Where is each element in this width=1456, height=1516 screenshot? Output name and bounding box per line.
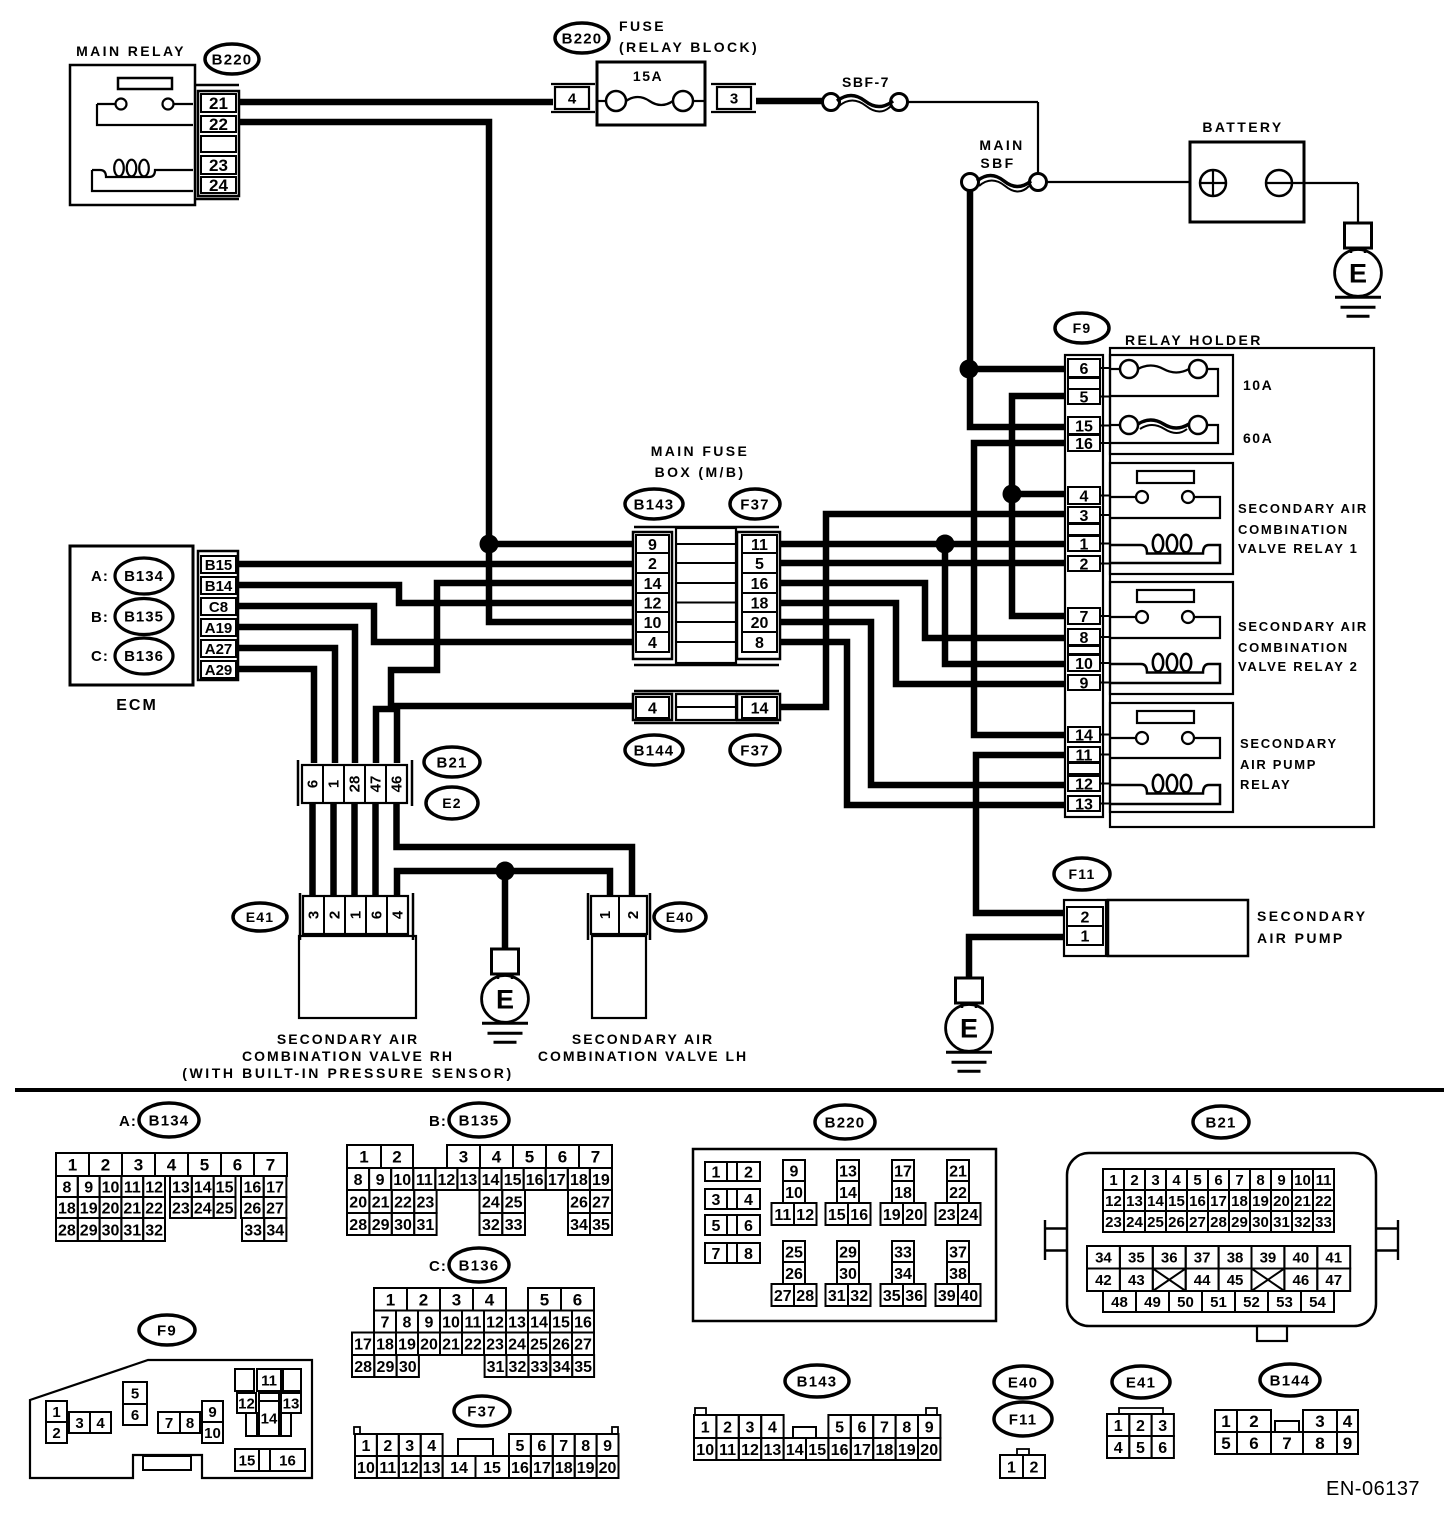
svg-text:26: 26 bbox=[1168, 1214, 1185, 1231]
svg-text:4: 4 bbox=[1343, 1412, 1353, 1431]
svg-text:19: 19 bbox=[592, 1172, 610, 1189]
svg-text:MAIN FUSE: MAIN FUSE bbox=[651, 443, 750, 459]
svg-text:31: 31 bbox=[1273, 1214, 1290, 1231]
svg-text:3: 3 bbox=[459, 1148, 468, 1167]
svg-text:14: 14 bbox=[839, 1185, 857, 1202]
svg-text:15A: 15A bbox=[633, 68, 663, 84]
svg-text:14: 14 bbox=[450, 1460, 468, 1477]
svg-text:B21: B21 bbox=[1205, 1114, 1236, 1131]
svg-text:3: 3 bbox=[730, 90, 738, 107]
svg-text:11: 11 bbox=[379, 1460, 396, 1477]
svg-text:19: 19 bbox=[1252, 1193, 1269, 1210]
svg-text:12: 12 bbox=[1105, 1193, 1122, 1210]
svg-text:16: 16 bbox=[526, 1172, 544, 1189]
svg-text:3: 3 bbox=[75, 1415, 83, 1432]
svg-text:E: E bbox=[496, 984, 514, 1014]
svg-text:9: 9 bbox=[1080, 675, 1089, 692]
svg-text:21: 21 bbox=[372, 1194, 390, 1211]
svg-text:18: 18 bbox=[751, 595, 769, 612]
svg-text:4: 4 bbox=[1114, 1440, 1123, 1457]
svg-text:6: 6 bbox=[305, 780, 322, 788]
svg-text:23: 23 bbox=[486, 1337, 504, 1354]
svg-text:5: 5 bbox=[712, 1218, 721, 1235]
svg-text:28: 28 bbox=[354, 1359, 372, 1376]
svg-text:5: 5 bbox=[755, 556, 764, 573]
svg-text:E40: E40 bbox=[1008, 1374, 1038, 1391]
svg-text:5: 5 bbox=[1221, 1434, 1230, 1453]
svg-text:6: 6 bbox=[1080, 361, 1089, 378]
svg-text:21: 21 bbox=[949, 1163, 967, 1180]
svg-text:10: 10 bbox=[785, 1185, 803, 1202]
svg-text:2: 2 bbox=[1080, 556, 1089, 573]
svg-text:31: 31 bbox=[828, 1288, 846, 1305]
svg-text:12: 12 bbox=[437, 1172, 455, 1189]
svg-text:A:: A: bbox=[119, 1113, 137, 1130]
svg-text:25: 25 bbox=[530, 1337, 548, 1354]
svg-text:34: 34 bbox=[266, 1222, 284, 1239]
svg-text:6: 6 bbox=[131, 1407, 139, 1424]
svg-text:16: 16 bbox=[850, 1207, 868, 1224]
svg-text:11: 11 bbox=[124, 1179, 141, 1196]
svg-text:12: 12 bbox=[401, 1460, 419, 1477]
svg-text:SECONDARY: SECONDARY bbox=[1257, 908, 1368, 924]
svg-text:3: 3 bbox=[1158, 1418, 1167, 1435]
svg-text:B136: B136 bbox=[459, 1257, 500, 1274]
svg-text:A27: A27 bbox=[205, 641, 233, 658]
svg-text:38: 38 bbox=[949, 1266, 967, 1283]
svg-text:1: 1 bbox=[597, 911, 614, 919]
svg-text:6: 6 bbox=[744, 1218, 753, 1235]
svg-text:51: 51 bbox=[1210, 1294, 1227, 1311]
svg-text:27: 27 bbox=[592, 1194, 610, 1211]
svg-text:9: 9 bbox=[925, 1419, 934, 1436]
svg-text:4: 4 bbox=[648, 700, 657, 717]
svg-text:19: 19 bbox=[398, 1337, 416, 1354]
svg-text:28: 28 bbox=[58, 1222, 76, 1239]
svg-text:45: 45 bbox=[1227, 1272, 1244, 1289]
svg-text:30: 30 bbox=[1252, 1214, 1269, 1231]
svg-text:14: 14 bbox=[1147, 1193, 1164, 1210]
svg-text:19: 19 bbox=[577, 1460, 595, 1477]
svg-text:29: 29 bbox=[80, 1222, 98, 1239]
svg-text:6: 6 bbox=[558, 1148, 567, 1167]
svg-text:B220: B220 bbox=[212, 51, 253, 68]
svg-text:14: 14 bbox=[530, 1314, 548, 1331]
svg-text:10: 10 bbox=[1075, 656, 1093, 673]
svg-text:8: 8 bbox=[744, 1246, 753, 1263]
svg-text:2: 2 bbox=[383, 1438, 392, 1455]
svg-text:34: 34 bbox=[552, 1359, 570, 1376]
svg-text:24: 24 bbox=[508, 1337, 526, 1354]
svg-text:RELAY: RELAY bbox=[1240, 777, 1291, 792]
svg-text:15: 15 bbox=[808, 1442, 826, 1459]
svg-text:14: 14 bbox=[1075, 727, 1093, 744]
svg-text:11: 11 bbox=[1076, 747, 1093, 764]
svg-text:34: 34 bbox=[570, 1217, 588, 1234]
svg-text:MAIN RELAY: MAIN RELAY bbox=[76, 43, 186, 59]
svg-text:8: 8 bbox=[902, 1419, 911, 1436]
svg-text:17: 17 bbox=[354, 1337, 372, 1354]
svg-text:34: 34 bbox=[1095, 1250, 1112, 1267]
svg-text:43: 43 bbox=[1128, 1272, 1145, 1289]
svg-text:37: 37 bbox=[1194, 1250, 1211, 1267]
svg-text:F37: F37 bbox=[467, 1403, 496, 1420]
svg-text:E40: E40 bbox=[666, 909, 695, 925]
svg-text:14: 14 bbox=[482, 1172, 500, 1189]
svg-text:35: 35 bbox=[574, 1359, 592, 1376]
svg-text:17: 17 bbox=[548, 1172, 566, 1189]
svg-text:B144: B144 bbox=[1270, 1372, 1311, 1389]
svg-text:21: 21 bbox=[1294, 1193, 1311, 1210]
svg-text:FUSE: FUSE bbox=[619, 18, 666, 34]
svg-text:14: 14 bbox=[751, 700, 769, 717]
svg-text:26: 26 bbox=[570, 1194, 588, 1211]
svg-text:VALVE RELAY 1: VALVE RELAY 1 bbox=[1238, 541, 1359, 556]
svg-text:2: 2 bbox=[1136, 1418, 1145, 1435]
svg-text:F9: F9 bbox=[1073, 320, 1092, 336]
svg-text:5: 5 bbox=[200, 1156, 209, 1175]
svg-text:16: 16 bbox=[511, 1460, 529, 1477]
svg-text:3: 3 bbox=[134, 1156, 143, 1175]
svg-text:A:: A: bbox=[91, 568, 109, 585]
svg-text:COMBINATION VALVE LH: COMBINATION VALVE LH bbox=[538, 1048, 748, 1064]
svg-text:36: 36 bbox=[905, 1288, 923, 1305]
svg-text:41: 41 bbox=[1325, 1250, 1342, 1267]
svg-text:10: 10 bbox=[442, 1314, 460, 1331]
svg-text:4: 4 bbox=[1080, 488, 1089, 505]
svg-text:1: 1 bbox=[386, 1290, 395, 1309]
svg-text:40: 40 bbox=[960, 1288, 978, 1305]
svg-text:B220: B220 bbox=[825, 1114, 866, 1131]
svg-text:C:: C: bbox=[91, 648, 109, 665]
svg-text:4: 4 bbox=[568, 90, 577, 107]
svg-text:2: 2 bbox=[1081, 909, 1090, 926]
svg-text:1: 1 bbox=[348, 911, 365, 919]
svg-text:11: 11 bbox=[465, 1314, 482, 1331]
svg-text:35: 35 bbox=[883, 1288, 901, 1305]
svg-text:2: 2 bbox=[419, 1290, 428, 1309]
svg-text:6: 6 bbox=[573, 1290, 582, 1309]
svg-text:EN-06137: EN-06137 bbox=[1326, 1478, 1420, 1500]
svg-text:18: 18 bbox=[58, 1200, 76, 1217]
svg-text:52: 52 bbox=[1243, 1294, 1260, 1311]
svg-text:13: 13 bbox=[423, 1460, 441, 1477]
svg-text:15: 15 bbox=[504, 1172, 522, 1189]
svg-text:20: 20 bbox=[905, 1207, 923, 1224]
svg-text:27: 27 bbox=[1189, 1214, 1206, 1231]
svg-text:26: 26 bbox=[243, 1200, 261, 1217]
svg-text:22: 22 bbox=[1315, 1193, 1332, 1210]
svg-text:30: 30 bbox=[839, 1266, 857, 1283]
svg-text:15: 15 bbox=[828, 1207, 846, 1224]
svg-text:7: 7 bbox=[559, 1438, 568, 1455]
svg-text:12: 12 bbox=[486, 1314, 504, 1331]
svg-text:17: 17 bbox=[894, 1163, 912, 1180]
svg-text:1: 1 bbox=[1109, 1172, 1117, 1189]
svg-text:10: 10 bbox=[204, 1425, 221, 1442]
svg-text:F37: F37 bbox=[740, 742, 769, 759]
svg-text:21: 21 bbox=[442, 1337, 460, 1354]
svg-text:20: 20 bbox=[420, 1337, 438, 1354]
svg-text:14: 14 bbox=[194, 1179, 212, 1196]
svg-text:48: 48 bbox=[1111, 1294, 1128, 1311]
svg-text:B136: B136 bbox=[124, 648, 164, 665]
svg-text:1: 1 bbox=[701, 1419, 710, 1436]
svg-text:22: 22 bbox=[209, 115, 228, 134]
svg-text:44: 44 bbox=[1194, 1272, 1211, 1289]
svg-text:4: 4 bbox=[390, 910, 407, 919]
svg-text:B135: B135 bbox=[459, 1112, 500, 1129]
svg-text:18: 18 bbox=[1231, 1193, 1248, 1210]
svg-text:17: 17 bbox=[533, 1460, 551, 1477]
svg-text:4: 4 bbox=[167, 1156, 177, 1175]
svg-text:3: 3 bbox=[452, 1290, 461, 1309]
svg-text:ECM: ECM bbox=[116, 697, 158, 714]
svg-text:8: 8 bbox=[62, 1179, 71, 1196]
svg-text:30: 30 bbox=[399, 1359, 417, 1376]
svg-text:18: 18 bbox=[555, 1460, 573, 1477]
svg-text:RELAY HOLDER: RELAY HOLDER bbox=[1125, 332, 1263, 348]
svg-text:20: 20 bbox=[102, 1200, 120, 1217]
svg-text:5: 5 bbox=[1080, 389, 1089, 406]
svg-text:B135: B135 bbox=[124, 609, 164, 626]
svg-text:23: 23 bbox=[1105, 1214, 1122, 1231]
svg-text:SBF-7: SBF-7 bbox=[842, 74, 890, 90]
svg-text:5: 5 bbox=[1136, 1440, 1145, 1457]
svg-text:29: 29 bbox=[1231, 1214, 1248, 1231]
svg-text:7: 7 bbox=[712, 1246, 721, 1263]
svg-text:4: 4 bbox=[427, 1438, 436, 1455]
svg-text:20: 20 bbox=[349, 1194, 367, 1211]
svg-text:16: 16 bbox=[751, 576, 769, 593]
svg-text:16: 16 bbox=[574, 1314, 592, 1331]
svg-text:COMBINATION: COMBINATION bbox=[1238, 522, 1349, 537]
svg-text:40: 40 bbox=[1293, 1250, 1310, 1267]
svg-text:AIR PUMP: AIR PUMP bbox=[1240, 757, 1317, 772]
svg-text:7: 7 bbox=[1235, 1172, 1243, 1189]
svg-text:16: 16 bbox=[243, 1179, 261, 1196]
svg-text:4: 4 bbox=[1172, 1172, 1181, 1189]
svg-text:2: 2 bbox=[392, 1148, 401, 1167]
svg-text:60A: 60A bbox=[1243, 430, 1273, 446]
svg-text:19: 19 bbox=[883, 1207, 901, 1224]
svg-text:6: 6 bbox=[1249, 1434, 1258, 1453]
svg-text:5: 5 bbox=[835, 1419, 844, 1436]
svg-text:10: 10 bbox=[696, 1442, 714, 1459]
svg-text:35: 35 bbox=[1128, 1250, 1145, 1267]
svg-text:22: 22 bbox=[394, 1194, 412, 1211]
svg-text:33: 33 bbox=[1315, 1214, 1332, 1231]
svg-text:39: 39 bbox=[938, 1288, 956, 1305]
svg-text:12: 12 bbox=[644, 595, 662, 612]
svg-text:7: 7 bbox=[266, 1156, 275, 1175]
svg-text:24: 24 bbox=[194, 1200, 212, 1217]
svg-text:28: 28 bbox=[1210, 1214, 1227, 1231]
svg-text:F37: F37 bbox=[740, 496, 769, 513]
svg-text:9: 9 bbox=[1277, 1172, 1285, 1189]
svg-text:13: 13 bbox=[508, 1314, 526, 1331]
svg-text:16: 16 bbox=[1189, 1193, 1206, 1210]
svg-text:20: 20 bbox=[1273, 1193, 1290, 1210]
svg-text:20: 20 bbox=[599, 1460, 617, 1477]
svg-text:C:: C: bbox=[429, 1258, 447, 1275]
svg-text:B:: B: bbox=[429, 1113, 447, 1130]
svg-text:19: 19 bbox=[80, 1200, 98, 1217]
svg-text:6: 6 bbox=[1158, 1440, 1167, 1457]
svg-text:32: 32 bbox=[1294, 1214, 1311, 1231]
svg-text:13: 13 bbox=[1075, 796, 1093, 813]
svg-text:7: 7 bbox=[1080, 609, 1089, 626]
svg-text:6: 6 bbox=[858, 1419, 867, 1436]
svg-text:6: 6 bbox=[233, 1156, 242, 1175]
svg-text:8: 8 bbox=[1080, 630, 1089, 647]
svg-text:2: 2 bbox=[1130, 1172, 1138, 1189]
svg-text:5: 5 bbox=[1193, 1172, 1201, 1189]
svg-text:9: 9 bbox=[648, 537, 657, 554]
svg-text:28: 28 bbox=[796, 1288, 814, 1305]
svg-text:24: 24 bbox=[209, 176, 228, 195]
svg-text:1: 1 bbox=[326, 780, 343, 788]
svg-text:13: 13 bbox=[283, 1395, 300, 1412]
svg-text:3: 3 bbox=[1151, 1172, 1159, 1189]
svg-text:1: 1 bbox=[68, 1156, 77, 1175]
svg-text:1: 1 bbox=[712, 1164, 721, 1181]
svg-text:SECONDARY AIR: SECONDARY AIR bbox=[1238, 619, 1368, 634]
svg-text:15: 15 bbox=[483, 1460, 501, 1477]
svg-text:2: 2 bbox=[1249, 1412, 1258, 1431]
svg-text:10: 10 bbox=[357, 1460, 375, 1477]
svg-text:COMBINATION: COMBINATION bbox=[1238, 640, 1349, 655]
svg-text:22: 22 bbox=[949, 1185, 967, 1202]
svg-text:27: 27 bbox=[774, 1288, 792, 1305]
svg-text:B134: B134 bbox=[124, 568, 164, 585]
svg-text:8: 8 bbox=[403, 1314, 412, 1331]
svg-text:32: 32 bbox=[482, 1217, 500, 1234]
svg-text:6: 6 bbox=[1214, 1172, 1222, 1189]
svg-text:3: 3 bbox=[306, 911, 323, 919]
svg-text:MAIN: MAIN bbox=[979, 137, 1024, 153]
svg-text:1: 1 bbox=[1221, 1412, 1230, 1431]
svg-text:B:: B: bbox=[91, 609, 109, 626]
svg-text:49: 49 bbox=[1144, 1294, 1161, 1311]
svg-text:4: 4 bbox=[485, 1290, 495, 1309]
svg-text:9: 9 bbox=[425, 1314, 434, 1331]
svg-text:28: 28 bbox=[347, 776, 364, 793]
svg-text:22: 22 bbox=[464, 1337, 482, 1354]
svg-text:14: 14 bbox=[644, 576, 662, 593]
svg-text:B15: B15 bbox=[205, 557, 233, 574]
svg-text:A29: A29 bbox=[205, 662, 233, 679]
svg-text:32: 32 bbox=[850, 1288, 868, 1305]
svg-text:39: 39 bbox=[1260, 1250, 1277, 1267]
svg-text:13: 13 bbox=[1126, 1193, 1143, 1210]
svg-text:33: 33 bbox=[530, 1359, 548, 1376]
svg-text:25: 25 bbox=[216, 1200, 234, 1217]
svg-text:35: 35 bbox=[592, 1217, 610, 1234]
svg-text:(RELAY BLOCK): (RELAY BLOCK) bbox=[619, 39, 759, 55]
svg-text:18: 18 bbox=[894, 1185, 912, 1202]
svg-text:4: 4 bbox=[744, 1192, 753, 1209]
svg-text:37: 37 bbox=[949, 1244, 967, 1261]
svg-text:3: 3 bbox=[405, 1438, 414, 1455]
svg-text:33: 33 bbox=[505, 1217, 523, 1234]
svg-text:12: 12 bbox=[1075, 776, 1093, 793]
svg-text:34: 34 bbox=[894, 1266, 912, 1283]
svg-text:SBF: SBF bbox=[980, 155, 1015, 171]
svg-text:31: 31 bbox=[417, 1217, 435, 1234]
svg-text:29: 29 bbox=[839, 1244, 857, 1261]
svg-text:29: 29 bbox=[372, 1217, 390, 1234]
svg-text:6: 6 bbox=[537, 1438, 546, 1455]
svg-text:3: 3 bbox=[712, 1192, 721, 1209]
svg-text:11: 11 bbox=[751, 537, 768, 554]
svg-text:46: 46 bbox=[1293, 1272, 1310, 1289]
svg-text:42: 42 bbox=[1095, 1272, 1112, 1289]
svg-text:15: 15 bbox=[1168, 1193, 1185, 1210]
svg-text:38: 38 bbox=[1227, 1250, 1244, 1267]
svg-text:10: 10 bbox=[644, 615, 662, 632]
svg-text:10A: 10A bbox=[1243, 377, 1273, 393]
svg-text:16: 16 bbox=[279, 1452, 296, 1469]
svg-text:20: 20 bbox=[920, 1442, 938, 1459]
svg-text:53: 53 bbox=[1276, 1294, 1293, 1311]
svg-text:F11: F11 bbox=[1069, 866, 1096, 882]
svg-text:16: 16 bbox=[1075, 436, 1093, 453]
svg-text:2: 2 bbox=[1030, 1459, 1039, 1476]
svg-text:C8: C8 bbox=[209, 599, 228, 616]
svg-text:13: 13 bbox=[460, 1172, 478, 1189]
svg-text:6: 6 bbox=[369, 911, 386, 919]
svg-text:7: 7 bbox=[591, 1148, 600, 1167]
svg-text:1: 1 bbox=[52, 1404, 60, 1421]
svg-text:1: 1 bbox=[361, 1438, 370, 1455]
svg-text:SECONDARY AIR: SECONDARY AIR bbox=[277, 1031, 419, 1047]
svg-text:2: 2 bbox=[101, 1156, 110, 1175]
svg-text:15: 15 bbox=[1075, 418, 1093, 435]
svg-text:3: 3 bbox=[1315, 1412, 1324, 1431]
svg-text:33: 33 bbox=[244, 1222, 262, 1239]
svg-text:(WITH BUILT-IN PRESSURE SENSOR: (WITH BUILT-IN PRESSURE SENSOR) bbox=[182, 1065, 514, 1081]
svg-text:12: 12 bbox=[145, 1179, 163, 1196]
svg-text:26: 26 bbox=[785, 1266, 803, 1283]
svg-text:23: 23 bbox=[172, 1200, 190, 1217]
svg-text:B21: B21 bbox=[436, 754, 467, 771]
svg-text:23: 23 bbox=[209, 156, 228, 175]
svg-text:8: 8 bbox=[581, 1438, 590, 1455]
svg-text:F9: F9 bbox=[157, 1322, 177, 1339]
svg-text:B134: B134 bbox=[149, 1112, 190, 1129]
svg-text:8: 8 bbox=[186, 1415, 194, 1432]
svg-text:SECONDARY AIR: SECONDARY AIR bbox=[1238, 501, 1368, 516]
svg-text:12: 12 bbox=[238, 1395, 255, 1412]
svg-text:COMBINATION VALVE RH: COMBINATION VALVE RH bbox=[242, 1048, 454, 1064]
svg-text:13: 13 bbox=[764, 1442, 782, 1459]
svg-text:30: 30 bbox=[394, 1217, 412, 1234]
svg-text:VALVE RELAY 2: VALVE RELAY 2 bbox=[1238, 659, 1359, 674]
svg-text:5: 5 bbox=[525, 1148, 534, 1167]
svg-text:50: 50 bbox=[1177, 1294, 1194, 1311]
svg-text:9: 9 bbox=[84, 1179, 93, 1196]
svg-text:28: 28 bbox=[349, 1217, 367, 1234]
svg-text:4: 4 bbox=[648, 635, 657, 652]
svg-text:F11: F11 bbox=[1009, 1411, 1038, 1428]
svg-text:7: 7 bbox=[1282, 1434, 1291, 1453]
svg-text:8: 8 bbox=[755, 635, 764, 652]
svg-text:10: 10 bbox=[102, 1179, 120, 1196]
svg-text:B143: B143 bbox=[797, 1373, 838, 1390]
svg-text:B143: B143 bbox=[634, 496, 675, 513]
svg-text:47: 47 bbox=[1325, 1272, 1342, 1289]
